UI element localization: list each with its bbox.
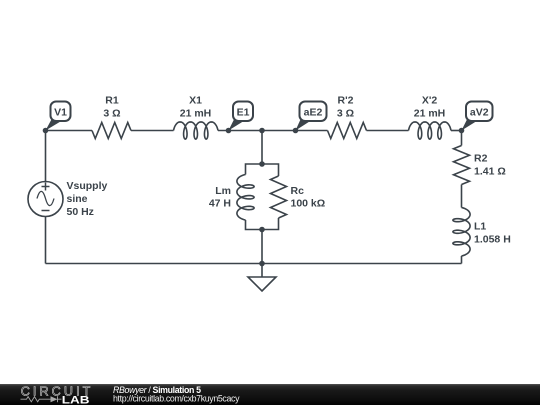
svg-text:3 Ω: 3 Ω	[337, 108, 354, 120]
junction Lm/Rc top	[259, 161, 265, 167]
svg-text:1.41 Ω: 1.41 Ω	[474, 166, 506, 178]
svg-text:R'2: R'2	[338, 95, 354, 107]
ground	[248, 264, 276, 292]
junction ground	[259, 261, 265, 267]
svg-text:LAB: LAB	[62, 394, 90, 405]
wire Lm/Rc bottom bracket	[246, 218, 279, 230]
wire right vertical: R2 to L1	[461, 185, 463, 208]
wire Lm/Rc top bracket	[246, 164, 279, 176]
wire left vertical: V1 node down to Vsupply	[45, 131, 47, 182]
wire right vertical: L1 to bottom rail	[461, 256, 463, 264]
wire top: V1 node to R1	[46, 130, 93, 132]
wire bottom rail	[46, 263, 462, 265]
svg-text:X'2: X'2	[422, 95, 438, 107]
svg-text:R2: R2	[474, 153, 488, 165]
resistor R'2	[328, 123, 367, 139]
junction Lm/Rc bottom	[259, 227, 265, 233]
node V1 flag	[46, 102, 71, 131]
svg-text:X1: X1	[189, 95, 202, 107]
svg-text:sine: sine	[67, 193, 88, 205]
svg-text:50 Hz: 50 Hz	[67, 206, 94, 218]
inductor X'2	[409, 122, 452, 139]
inductor X1	[174, 122, 219, 139]
svg-text:R1: R1	[105, 95, 119, 107]
svg-text:http://circuitlab.com/cxb7kuyn: http://circuitlab.com/cxb7kuyn5cacy	[113, 394, 240, 404]
resistor R2	[454, 146, 470, 185]
resistor R1	[92, 123, 131, 139]
CircuitLab logo	[21, 385, 94, 405]
svg-text:V1: V1	[54, 107, 67, 119]
wire top: R'2 to X'2	[367, 130, 409, 132]
wire middle vertical: Lm/Rc bottom bracket to bottom rail	[261, 230, 263, 264]
svg-text:100 kΩ: 100 kΩ	[291, 198, 326, 210]
node aV2 junction	[459, 128, 465, 134]
svg-text:Rc: Rc	[291, 185, 305, 197]
junction top-middle	[259, 128, 265, 134]
wire top: R1 to X1	[131, 130, 174, 132]
svg-text:aV2: aV2	[470, 107, 489, 119]
inductor Lm	[237, 175, 254, 221]
svg-text:21 mH: 21 mH	[414, 108, 446, 120]
voltage source Vsupply	[28, 182, 63, 217]
svg-text:47 H: 47 H	[209, 198, 231, 210]
node V1 junction	[43, 128, 49, 134]
svg-text:3 Ω: 3 Ω	[103, 108, 120, 120]
wire top: X'2 to aV2 node	[451, 130, 462, 132]
svg-text:1.058 H: 1.058 H	[474, 234, 511, 246]
node aV2 flag	[462, 102, 493, 131]
svg-text:Vsupply: Vsupply	[67, 180, 108, 192]
inductor L1	[453, 208, 470, 257]
node E1 junction	[226, 128, 232, 134]
wire top: X1 to aE2 via E1 and junction	[218, 130, 328, 132]
svg-text:aE2: aE2	[304, 107, 323, 119]
svg-text:L1: L1	[474, 221, 486, 233]
svg-text:21 mH: 21 mH	[180, 108, 212, 120]
node E1 flag	[229, 102, 254, 131]
svg-text:E1: E1	[237, 107, 250, 119]
node aE2 flag	[296, 102, 327, 131]
node aE2 junction	[293, 128, 299, 134]
wire right vertical: aV2 node to R2	[461, 131, 463, 146]
wire left vertical: Vsupply down to bottom rail	[45, 217, 47, 264]
resistor Rc	[271, 176, 287, 218]
svg-text:Lm: Lm	[215, 185, 231, 197]
wire middle vertical: top junction down to Lm/Rc top bracket	[261, 131, 263, 165]
